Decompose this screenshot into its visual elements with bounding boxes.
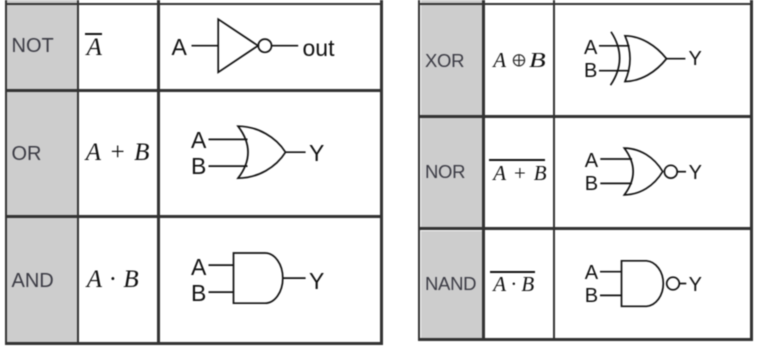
expression NOT: A with overline [87, 35, 102, 60]
wire NOT output [272, 45, 299, 47]
circled plus operator of XOR expression [513, 55, 524, 66]
NOR gate body [624, 148, 662, 195]
XOR gate body [625, 36, 667, 82]
wire OR input B [209, 165, 248, 167]
expression AND: A dot B [87, 267, 139, 292]
XOR gate extra input arc [611, 32, 620, 85]
wire NOR output [677, 171, 686, 173]
wire NOT input [192, 45, 219, 47]
wire AND input A [209, 264, 234, 266]
right table gray label column cells [421, 0, 483, 3]
wire OR input A [209, 138, 248, 140]
output label Y (XOR gate) [689, 49, 702, 69]
wire XOR output [667, 58, 686, 60]
input label A (OR gate) [191, 129, 206, 152]
row label AND [12, 271, 54, 291]
row label NOT [12, 36, 54, 56]
expression NAND: A dot B with overline [493, 274, 534, 295]
OR gate body [238, 126, 286, 178]
wire OR output [286, 151, 306, 153]
NOT gate triangle [218, 19, 258, 72]
row label NOR [425, 163, 465, 182]
row label OR [12, 144, 42, 164]
AND gate body [234, 253, 283, 303]
NOR gate inversion bubble [664, 165, 677, 178]
input label A (NOT gate) [172, 36, 187, 59]
left table gray label column cells [7, 0, 78, 3]
input label B (AND gate) [191, 282, 206, 305]
NOT gate inversion bubble [258, 39, 271, 52]
input label B (NOR gate) [585, 174, 598, 194]
input label B (XOR gate) [584, 61, 597, 81]
input label A (NAND gate) [585, 263, 598, 283]
expression XOR: A circled-plus B [493, 50, 506, 71]
wire NAND output [679, 283, 686, 285]
right table grid lines [418, 0, 420, 341]
input label A (NOR gate) [585, 151, 598, 171]
wire AND input B [209, 291, 234, 293]
wire NAND input B [600, 294, 622, 296]
output label Y (NAND gate) [689, 275, 702, 295]
input label B (NAND gate) [585, 286, 598, 306]
wire NOR input B [600, 182, 632, 184]
NAND gate body [622, 261, 664, 307]
input label B (OR gate) [191, 155, 206, 178]
expression OR: A + B [86, 140, 150, 165]
expression NOR: A + B with overline [493, 163, 546, 184]
wire AND output [283, 277, 306, 279]
row label NAND [425, 275, 476, 294]
output label Y (OR gate) [309, 142, 324, 165]
row label XOR [425, 52, 464, 71]
wire XOR input A [599, 45, 630, 47]
wire NOR input A [600, 158, 632, 160]
input label A (AND gate) [191, 256, 206, 279]
output label out (NOT gate) [303, 37, 335, 60]
left table grid lines [5, 0, 7, 345]
output label Y (NOR gate) [689, 163, 702, 183]
wire XOR input B [599, 70, 630, 72]
NAND gate inversion bubble [667, 277, 680, 290]
wire NAND input A [600, 271, 622, 273]
input label A (XOR gate) [584, 38, 597, 58]
output label Y (AND gate) [309, 270, 324, 293]
